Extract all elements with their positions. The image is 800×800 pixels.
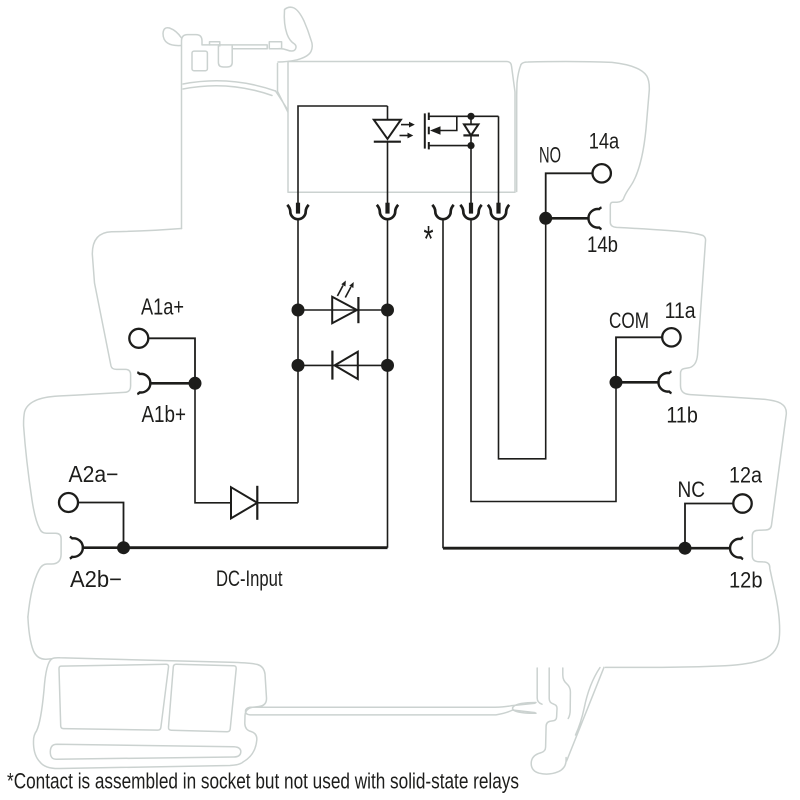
svg-text:A1a+: A1a+ (141, 294, 184, 320)
diode D1 polarity (231, 486, 257, 520)
housing rail clamp pocket (513, 703, 536, 714)
wire NC link (442, 219, 444, 549)
svg-text:11b: 11b (666, 403, 698, 428)
wire NO up (546, 173, 593, 218)
svg-text:NC: NC (678, 477, 706, 502)
wire A1b (149, 382, 195, 385)
wire 12b (685, 547, 731, 550)
plug contact pin 1 (287, 203, 308, 220)
wire A2b (82, 546, 124, 549)
housing skid hole 2 (168, 664, 236, 732)
svg-text:A2b−: A2b− (70, 566, 122, 592)
wire diode row (298, 364, 388, 366)
wire A2 bus (124, 546, 388, 549)
terminal 11b cup (658, 371, 671, 393)
terminal 12b cup (730, 537, 743, 559)
housing lever head outline (182, 35, 219, 229)
node LED row right (381, 304, 394, 317)
housing lever left curl (163, 28, 182, 46)
svg-text:12b: 12b (729, 568, 763, 593)
svg-text:DC-Input: DC-Input (216, 566, 283, 591)
housing rail clamp finger (531, 668, 566, 774)
housing rail clamp slants (567, 667, 604, 761)
node A2 junction (117, 541, 130, 554)
housing lever hole (192, 51, 207, 71)
terminal 14b cup (588, 207, 601, 229)
terminal 14a circle (593, 164, 611, 182)
terminal A2a circle (59, 493, 78, 512)
node LED row left (292, 304, 305, 317)
MOSFET U1 output switch (425, 113, 499, 150)
housing lever slot (276, 64, 288, 112)
svg-text:*: * (424, 219, 434, 260)
svg-text:A1b+: A1b+ (142, 401, 187, 427)
wire COM up (616, 337, 662, 382)
wire A1a (148, 338, 195, 383)
wire D1 to left column (257, 502, 298, 504)
wire NC up (685, 504, 733, 549)
node diode row left (292, 359, 305, 372)
housing skid outline (34, 658, 267, 769)
node diode row right (381, 359, 394, 372)
housing lever tooth (210, 42, 220, 46)
svg-text:14b: 14b (587, 232, 618, 257)
svg-text:NO: NO (539, 143, 561, 168)
wire SSR right rail (498, 116, 500, 213)
wire 14b (546, 217, 590, 220)
wire LED row (298, 309, 388, 311)
svg-text:11a: 11a (665, 298, 697, 323)
wire left column (297, 219, 299, 503)
housing lever bar (218, 45, 267, 49)
din rail lines (245, 703, 535, 715)
housing rail clamp inner finger (563, 668, 571, 719)
wire NC bus (443, 547, 685, 550)
wire SSR gate return (470, 146, 472, 213)
housing skid hole 1 (59, 664, 169, 730)
node NO junction (539, 212, 552, 225)
terminal A1b cup (137, 372, 150, 394)
wire NO link (499, 218, 546, 458)
plug contact unused (432, 205, 453, 219)
svg-text:A2a−: A2a− (69, 461, 119, 487)
node COM junction (610, 376, 623, 389)
plug contact pin 2 (377, 203, 398, 220)
wire SSR input top (298, 106, 388, 213)
plug contact pin 5 (488, 203, 509, 220)
svg-text:COM: COM (609, 308, 649, 333)
diode D3 SSR clamp (463, 116, 479, 145)
diode D5 reverse protection (332, 351, 357, 380)
wire 11b (616, 381, 660, 384)
wire mid column (387, 219, 389, 548)
housing lever block (269, 42, 281, 49)
housing left profile A1 section (24, 229, 182, 618)
node NC junction (679, 542, 692, 555)
node A1 junction (189, 377, 202, 390)
wire A2a (78, 503, 124, 548)
housing lever tab (218, 46, 232, 67)
housing right inner edge (517, 65, 521, 192)
terminal A1a circle (129, 329, 148, 348)
svg-text:12a: 12a (729, 463, 763, 488)
opto light arrows (400, 122, 415, 139)
terminal 12a circle (733, 494, 751, 512)
housing left lower edge (28, 617, 52, 659)
relay module box (288, 62, 515, 193)
LED D4 status indicator (332, 297, 358, 323)
housing top arcs (183, 81, 276, 96)
wire COM link (471, 219, 616, 502)
LED D4 light arrows (337, 281, 353, 298)
wire A1 down (195, 383, 231, 503)
svg-text:*Contact is assembled in socke: *Contact is assembled in socket but not … (7, 768, 519, 793)
terminal 11a circle (662, 328, 680, 346)
housing skid slot (50, 744, 241, 759)
terminal A2b cup (70, 537, 83, 559)
housing lever arm (278, 7, 313, 62)
LED D2 opto emitter (374, 106, 401, 213)
node SSR top rail (467, 113, 474, 120)
node SSR bottom rail (467, 142, 474, 149)
plug contact pin 4 (460, 203, 481, 220)
svg-text:14a: 14a (589, 129, 620, 154)
housing right profile (521, 62, 786, 668)
